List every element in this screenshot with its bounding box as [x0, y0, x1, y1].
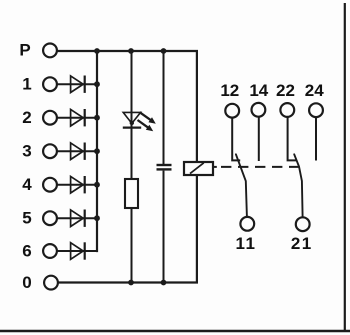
svg-text:5: 5: [22, 209, 31, 228]
svg-text:24: 24: [305, 81, 324, 100]
node 0-LED junction: [128, 280, 134, 286]
wire contact 22 with seat: [288, 117, 297, 160]
terminal 1 circle: [43, 77, 57, 91]
node row2-bus: [94, 115, 100, 121]
wire row 5: [57, 217, 96, 219]
contact lever 11-12: [236, 154, 247, 216]
terminal 5 circle: [43, 211, 57, 225]
resistor R1: [125, 179, 138, 208]
node P-bus junction: [94, 48, 100, 54]
wire capacitor to 0: [163, 171, 165, 283]
bottom boundary line: [0, 330, 350, 332]
svg-text:11: 11: [236, 234, 257, 253]
terminal 0 circle: [44, 276, 58, 290]
svg-text:6: 6: [22, 241, 31, 260]
LED V1: [123, 112, 156, 131]
contact 22 circle: [280, 103, 294, 117]
right boundary line: [344, 3, 346, 331]
contact lever 21-22: [294, 154, 302, 216]
terminal 11 circle: [240, 217, 254, 231]
node P-cap junction: [161, 48, 167, 54]
wire 0 rail: [58, 175, 197, 283]
svg-text:12: 12: [220, 81, 239, 100]
terminal 4 circle: [43, 178, 57, 192]
wire contact 14: [258, 117, 260, 161]
diode D6: [71, 242, 85, 259]
terminal 2 circle: [43, 111, 57, 125]
terminal P circle: [43, 44, 57, 58]
diode D5: [71, 210, 85, 227]
svg-text:P: P: [19, 41, 30, 60]
diode D3: [71, 143, 85, 160]
terminal 3 circle: [43, 144, 57, 158]
diode D2: [71, 109, 85, 126]
mechanical link dashed: [213, 166, 217, 168]
svg-text:2: 2: [22, 108, 31, 127]
wire row 3: [57, 150, 96, 152]
svg-text:0: 0: [22, 273, 31, 292]
wire row 4: [57, 184, 96, 186]
wire row 2: [57, 117, 96, 119]
terminal 21 circle: [296, 217, 310, 231]
contact 24 circle: [309, 103, 323, 117]
node row3-bus: [94, 148, 100, 154]
wire contact 12 with seat: [232, 118, 240, 160]
svg-text:21: 21: [291, 234, 313, 253]
wire cathode bus: [96, 51, 97, 251]
contact 14 circle: [252, 103, 266, 117]
wire row 1: [57, 83, 96, 85]
svg-text:1: 1: [22, 75, 31, 94]
diode D1: [71, 76, 85, 93]
node 0-cap junction: [161, 280, 167, 286]
node row1-bus: [94, 81, 100, 87]
svg-text:3: 3: [22, 142, 31, 161]
relay coil K1: [184, 162, 213, 175]
svg-text:4: 4: [22, 175, 32, 194]
terminal 6 circle: [43, 244, 57, 258]
svg-text:14: 14: [249, 81, 268, 100]
node P-LED junction: [128, 48, 134, 54]
wire P rail: [57, 51, 197, 163]
wire contact 24: [315, 118, 317, 161]
wire capacitor branch: [163, 51, 165, 164]
wire row 6: [57, 250, 96, 252]
capacitor C1: [157, 165, 172, 169]
node row5-bus: [94, 215, 100, 221]
node row4-bus: [94, 182, 100, 188]
wire LED branch: [131, 51, 133, 283]
svg-text:22: 22: [276, 81, 295, 100]
diode D4: [71, 176, 85, 193]
contact 12 circle: [225, 104, 239, 118]
